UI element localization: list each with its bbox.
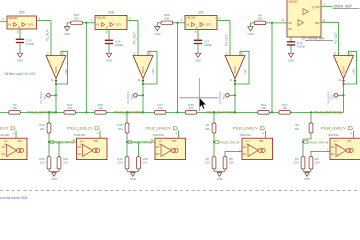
junction tap node [126,141,128,143]
svg-text:20k: 20k [205,127,210,131]
resistor R16 10k [279,103,291,114]
svg-text:U5C: U5C [198,10,205,14]
capacitor C18 1000p [287,37,306,53]
svg-text:220: 220 [143,161,148,165]
svg-text:TP2: TP2 [43,94,47,99]
svg-text:1000p: 1000p [297,45,305,49]
svg-text:10k: 10k [12,106,17,110]
junction node col input R4 [271,22,273,24]
wires to ground [48,169,50,172]
junction node col input R48 [176,22,178,24]
svg-text:P2_OUT: P2_OUT [132,32,136,44]
resistor R47 200 [67,13,95,24]
VCA block U6A (SSI2190) [0,133,27,160]
editor crosshair [180,97,219,99]
svg-text:10k: 10k [67,106,72,110]
svg-text:U2A: U2A [243,69,247,75]
svg-text:U7A: U7A [347,140,352,143]
global label OVCA_OUT [321,4,360,9]
svg-text:SSI2140: SSI2140 [96,16,106,20]
wire level pin U6A [15,131,17,139]
ground at R48 [154,23,160,36]
svg-text:220: 220 [40,161,45,165]
svg-text:U5A: U5A [19,10,26,14]
wires to ground [213,169,215,172]
op-amp U2A (TL074 buffer) [225,53,247,82]
wire P2_OUT from filter output [127,20,138,22]
wire stub second resistor to block input [311,152,330,157]
svg-text:POLE4_LEVELCV: POLE4_LEVELCV [321,126,347,130]
svg-text:220: 220 [63,161,68,165]
svg-text:GND: GND [51,177,57,181]
capacitor C15 1000p [16,29,35,53]
svg-text:POLE1_BUFFERED: POLE1_BUFFERED [27,111,56,115]
wire stub second resistor [138,142,140,157]
svg-text:10k: 10k [98,106,103,110]
resistor R11 10k [258,103,270,114]
ground divider [216,172,222,182]
svg-text:20k: 20k [40,127,45,131]
svg-text:220: 220 [315,161,320,165]
op-amp U1D (TL074 buffer) [133,53,155,82]
svg-text:GND: GND [154,32,160,36]
resistor R1 20k [205,111,216,156]
wire col input down to bus [85,23,87,113]
svg-text:GND: GND [106,58,112,62]
svg-text:GND: GND [288,58,294,62]
svg-text:BUF: BUF [315,23,320,25]
svg-text:POLE1_LEVELCV: POLE1_LEVELCV [0,126,9,130]
svg-text:20k: 20k [118,127,123,131]
svg-text:SSI2190: SSI2190 [153,133,165,137]
wire level pin U6B [99,131,101,139]
output wire U2B to bus [343,79,345,113]
hierarchical label POLE1_TAP_12 [49,140,53,143]
svg-text:SSI2190: SSI2190 [0,133,10,137]
svg-text:OVCA_IN+: OVCA_IN+ [308,37,324,41]
svg-text:TL074: TL074 [141,66,145,74]
wire stub second resistor to block input [225,152,242,157]
svg-text:SSI2190: SSI2190 [74,133,86,137]
resistor R15 20k [117,111,129,156]
svg-text:GND: GND [247,32,253,36]
wire col input down to bus [177,23,179,113]
svg-text:200: 200 [258,17,263,21]
ground below C18 [288,53,294,62]
svg-text:1000p: 1000p [204,43,212,47]
resistor R22 220 [57,157,69,169]
output wire U2A to bus [234,79,236,113]
svg-text:POLE3_TAP_34: POLE3_TAP_34 [219,141,240,145]
svg-text:TP3: TP3 [130,94,134,99]
wire tap to next block input [127,141,155,143]
sheet boundary dashed line [0,190,360,192]
junction node col input R47 [85,22,87,24]
svg-text:POLE4_BUFFERED: POLE4_BUFFERED [313,111,342,115]
svg-text:1000p: 1000p [115,43,123,47]
ground divider [304,172,310,182]
test point TP5 [327,91,345,103]
svg-text:P3_OUT: P3_OUT [224,34,228,46]
svg-text:10k: 10k [282,106,287,110]
resistor R8 220 [223,157,234,169]
svg-text:TP5: TP5 [330,94,334,99]
svg-text:20k: 20k [294,127,299,131]
svg-text:U6B: U6B [93,140,98,143]
svg-text:POLE3_BUFFERED: POLE3_BUFFERED [206,111,235,115]
svg-text:All filter caps 1% C0G: All filter caps 1% C0G [5,72,36,76]
junction tap node [213,141,215,143]
ground below C16 [106,53,112,62]
resistor R17 10k [154,103,166,114]
feedback wire U1C [56,51,68,84]
VCA block U6D (SSI2190) [240,133,273,160]
wire stub second resistor [58,142,60,157]
svg-text:200: 200 [74,17,79,21]
svg-text:SSI2140: SSI2140 [288,0,298,4]
hierarchical label POLE3_TAP_34 [214,140,218,143]
wire level pin U7A [353,131,355,139]
op-amp filter block U5A (SSI2140) [7,10,37,29]
resistor R2 20k [294,111,312,156]
resistor R42 10k [64,103,75,114]
wire level pin U6C [178,131,180,139]
svg-text:GND: GND [304,177,310,181]
resistor R13 220 [117,157,129,169]
global label OVCA_IN+ [301,37,333,41]
svg-text:U6D: U6D [259,140,264,143]
svg-text:Q_LOW: Q_LOW [312,7,321,9]
wires to ground [126,169,128,172]
feedback wire U2A [235,51,249,84]
resistor R9 10k [9,103,21,114]
svg-text:U1D: U1D [151,68,155,75]
svg-text:GND: GND [216,177,222,181]
svg-text:GND: GND [195,58,201,62]
svg-text:POLE1_LEVELCV: POLE1_LEVELCV [67,126,93,130]
ground divider [51,172,57,182]
feedback wire U1D [143,51,157,84]
test point TP3 [126,91,144,103]
wire: mix bus [0,111,344,113]
ground at R47 [64,23,70,36]
ground below C17 [195,53,201,62]
resistor R39 10k [185,103,197,114]
svg-text:GND: GND [17,58,23,62]
ground below C15 [17,53,23,62]
resistor R20 220 [39,157,51,169]
hierarchical label POLE4_TAP_45 [303,140,307,143]
svg-text:OUT1: OUT1 [28,25,35,27]
feedback wire U2B [344,51,357,84]
ground divider [130,172,136,182]
resistor R3 220 [294,157,305,169]
svg-text:P1_BUF: P1_BUF [45,29,49,41]
resistor R7 220 [205,157,216,169]
svg-text:TL074: TL074 [54,66,58,74]
wire input pin U5A from sheet edge [0,20,7,22]
wires to ground [302,169,304,172]
VCA block U6B (SSI2190) [74,133,107,160]
resistor R48 200 [157,13,185,24]
wire P4_OUT from filter output [321,21,339,23]
op-amp filter block U5B (SSI2140) [95,10,127,29]
capacitor C16 1000p [105,30,124,54]
svg-text:OVCA_OUT: OVCA_OUT [334,5,353,9]
svg-text:OUT1: OUT1 [206,25,213,27]
op-amp VCA block U5D (SSI2140) [287,0,326,37]
output wire U1C to bus [55,79,57,113]
svg-text:U5B: U5B [108,10,114,14]
svg-text:10k: 10k [189,106,194,110]
svg-text:220: 220 [118,161,123,165]
test point TP4 [218,91,236,103]
svg-text:U6A: U6A [17,140,22,143]
svg-text:POLE2_TAP_23: POLE2_TAP_23 [132,141,153,145]
resistor R6 220 [309,157,320,169]
svg-text:GND: GND [130,177,136,181]
op-amp filter block U5C (SSI2140) [185,10,217,29]
op-amp U2B (TL074 buffer) [334,53,356,82]
svg-text:10k: 10k [261,106,266,110]
svg-text:10k: 10k [158,106,163,110]
svg-text:s on flat combo 5115: s on flat combo 5115 [0,196,28,200]
test point TP2 [39,91,57,103]
svg-text:TL074: TL074 [342,66,346,74]
svg-text:POLE2_BUFFERED: POLE2_BUFFERED [114,111,143,115]
svg-text:OUT1: OUT1 [116,25,123,27]
junction tap node [48,141,50,143]
svg-text:GND: GND [64,32,70,36]
svg-text:220: 220 [229,161,234,165]
resistor R18 220 [137,157,149,169]
svg-text:P4_OUT: P4_OUT [334,32,338,44]
resistor R34 10k [95,103,107,114]
wire level pin U6D [265,131,267,139]
wire P1_BUF from filter output [37,20,52,22]
svg-text:SSI2140: SSI2140 [186,16,196,20]
svg-text:POLE4_TAP_45: POLE4_TAP_45 [308,141,329,145]
svg-text:SSI2190: SSI2190 [328,133,340,137]
op-amp U1C (TL074 buffer) [46,53,68,82]
svg-text:1000p: 1000p [26,42,34,46]
svg-text:POLE2_LEVELCV: POLE2_LEVELCV [146,126,172,130]
svg-text:SSI2190: SSI2190 [240,133,252,137]
ground at R4 [247,23,253,36]
svg-text:SSI2140: SSI2140 [8,16,18,20]
svg-text:220: 220 [294,161,299,165]
resistor R19 20k [39,111,51,156]
hierarchical label POLE2_TAP_23 [127,140,131,143]
VCA block U7A (SSI2190) [328,133,360,160]
wire tap to next block input [49,141,77,143]
mouse cursor [199,98,206,109]
svg-text:POLE3_LEVELCV: POLE3_LEVELCV [233,126,259,130]
VCA block U6C (SSI2190) [153,133,186,160]
svg-text:U6C: U6C [172,140,177,143]
wire P3_OUT from filter output [217,20,230,22]
svg-text:220: 220 [205,161,210,165]
svg-text:200: 200 [164,17,169,21]
resistor R4 200 [251,13,288,24]
svg-text:TL074: TL074 [233,66,237,74]
svg-text:TP4: TP4 [222,94,226,99]
svg-text:U2B: U2B [351,69,355,75]
wire col input down to bus [271,23,273,113]
capacitor C17 1000p [194,30,213,54]
junction tap node [302,141,304,143]
output wire U1D to bus [142,79,144,113]
